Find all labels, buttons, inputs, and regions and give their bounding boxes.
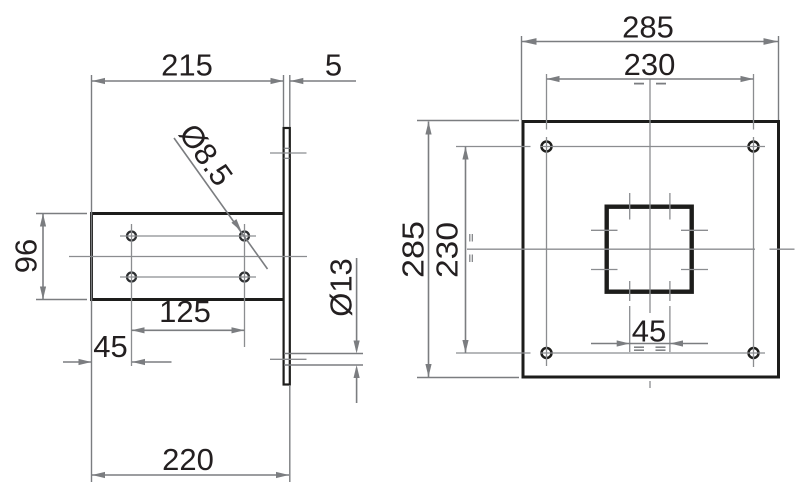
svg-text:285: 285 [396, 221, 431, 278]
svg-text:230: 230 [624, 47, 676, 82]
svg-text:125: 125 [159, 294, 211, 329]
svg-text:285: 285 [622, 10, 674, 45]
svg-text:230: 230 [430, 222, 465, 278]
svg-text:45: 45 [632, 314, 666, 349]
svg-text:Ø8.5: Ø8.5 [172, 117, 240, 192]
svg-text:220: 220 [162, 442, 214, 477]
svg-text:Ø13: Ø13 [324, 258, 359, 317]
svg-text:45: 45 [93, 329, 127, 364]
svg-text:5: 5 [325, 48, 342, 83]
svg-text:215: 215 [161, 48, 213, 83]
svg-text:96: 96 [9, 239, 44, 273]
